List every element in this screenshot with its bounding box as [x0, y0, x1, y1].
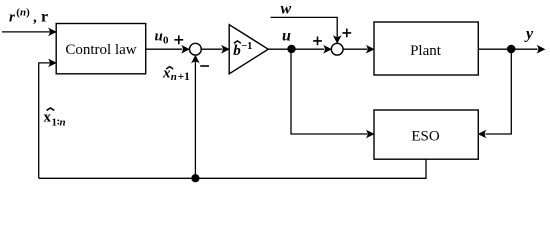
block: Control law [56, 24, 146, 74]
node u (junction dot) [287, 45, 295, 53]
wire S2 to Plant [343, 45, 375, 54]
wire y feedback into ESO (right) [478, 49, 512, 138]
svg-text:x: x [44, 109, 52, 125]
wire Plant output y [478, 45, 545, 54]
wire u feedback into ESO (left) [291, 49, 375, 138]
gain block b_hat^-1 (triangle) [229, 25, 268, 74]
block: Plant [374, 22, 478, 75]
svg-text:r: r [9, 9, 15, 25]
plus sign at summing junction S2 (left) [313, 37, 322, 46]
plus sign at summing junction S2 (top) [342, 29, 351, 38]
svg-text:−1: −1 [241, 41, 252, 52]
node label u [282, 27, 291, 44]
svg-text:u: u [282, 27, 291, 44]
svg-text:ESO: ESO [411, 129, 440, 145]
node label y [524, 26, 534, 43]
svg-text:Control law: Control law [65, 42, 136, 58]
svg-text:r: r [41, 8, 48, 25]
summing junction S2 [331, 43, 343, 55]
wire gain output to S2 with node u [268, 45, 332, 54]
junction dot on bottom bus [191, 174, 199, 182]
wire reference input r [2, 28, 57, 37]
summing junction S1 [190, 43, 202, 55]
node label u0 [155, 29, 170, 47]
svg-text:,: , [33, 9, 37, 25]
node label x_hat_1:n [44, 108, 66, 128]
node label w [281, 1, 292, 18]
node label x_hat_n+1 [162, 65, 190, 83]
svg-text:Plant: Plant [410, 43, 442, 59]
wire Control law output u0 [146, 45, 190, 54]
svg-text:b: b [233, 43, 241, 59]
plus sign at summing junction S1 [174, 35, 183, 44]
svg-text:u: u [155, 29, 163, 45]
node y (junction dot) [507, 45, 516, 54]
wire disturbance w into S2 [271, 17, 342, 44]
wire feedback x_hat_1:n into Control law [39, 59, 57, 179]
svg-text:x: x [162, 65, 171, 81]
block: ESO [374, 110, 478, 159]
svg-text:(n): (n) [16, 7, 30, 19]
svg-text:n: n [171, 71, 177, 83]
wire feedback x_hat_n+1 into S1 [191, 55, 200, 178]
wire S1 to gain block [201, 45, 229, 54]
svg-text:+1: +1 [178, 71, 191, 83]
minus sign at summing junction S1 [200, 65, 209, 67]
svg-text:0: 0 [163, 35, 169, 47]
wire ESO output to bottom bus [39, 159, 426, 178]
svg-text:y: y [524, 26, 534, 43]
node label r^(n), r [9, 7, 48, 26]
svg-text:n: n [60, 116, 66, 128]
svg-text:w: w [281, 1, 292, 18]
